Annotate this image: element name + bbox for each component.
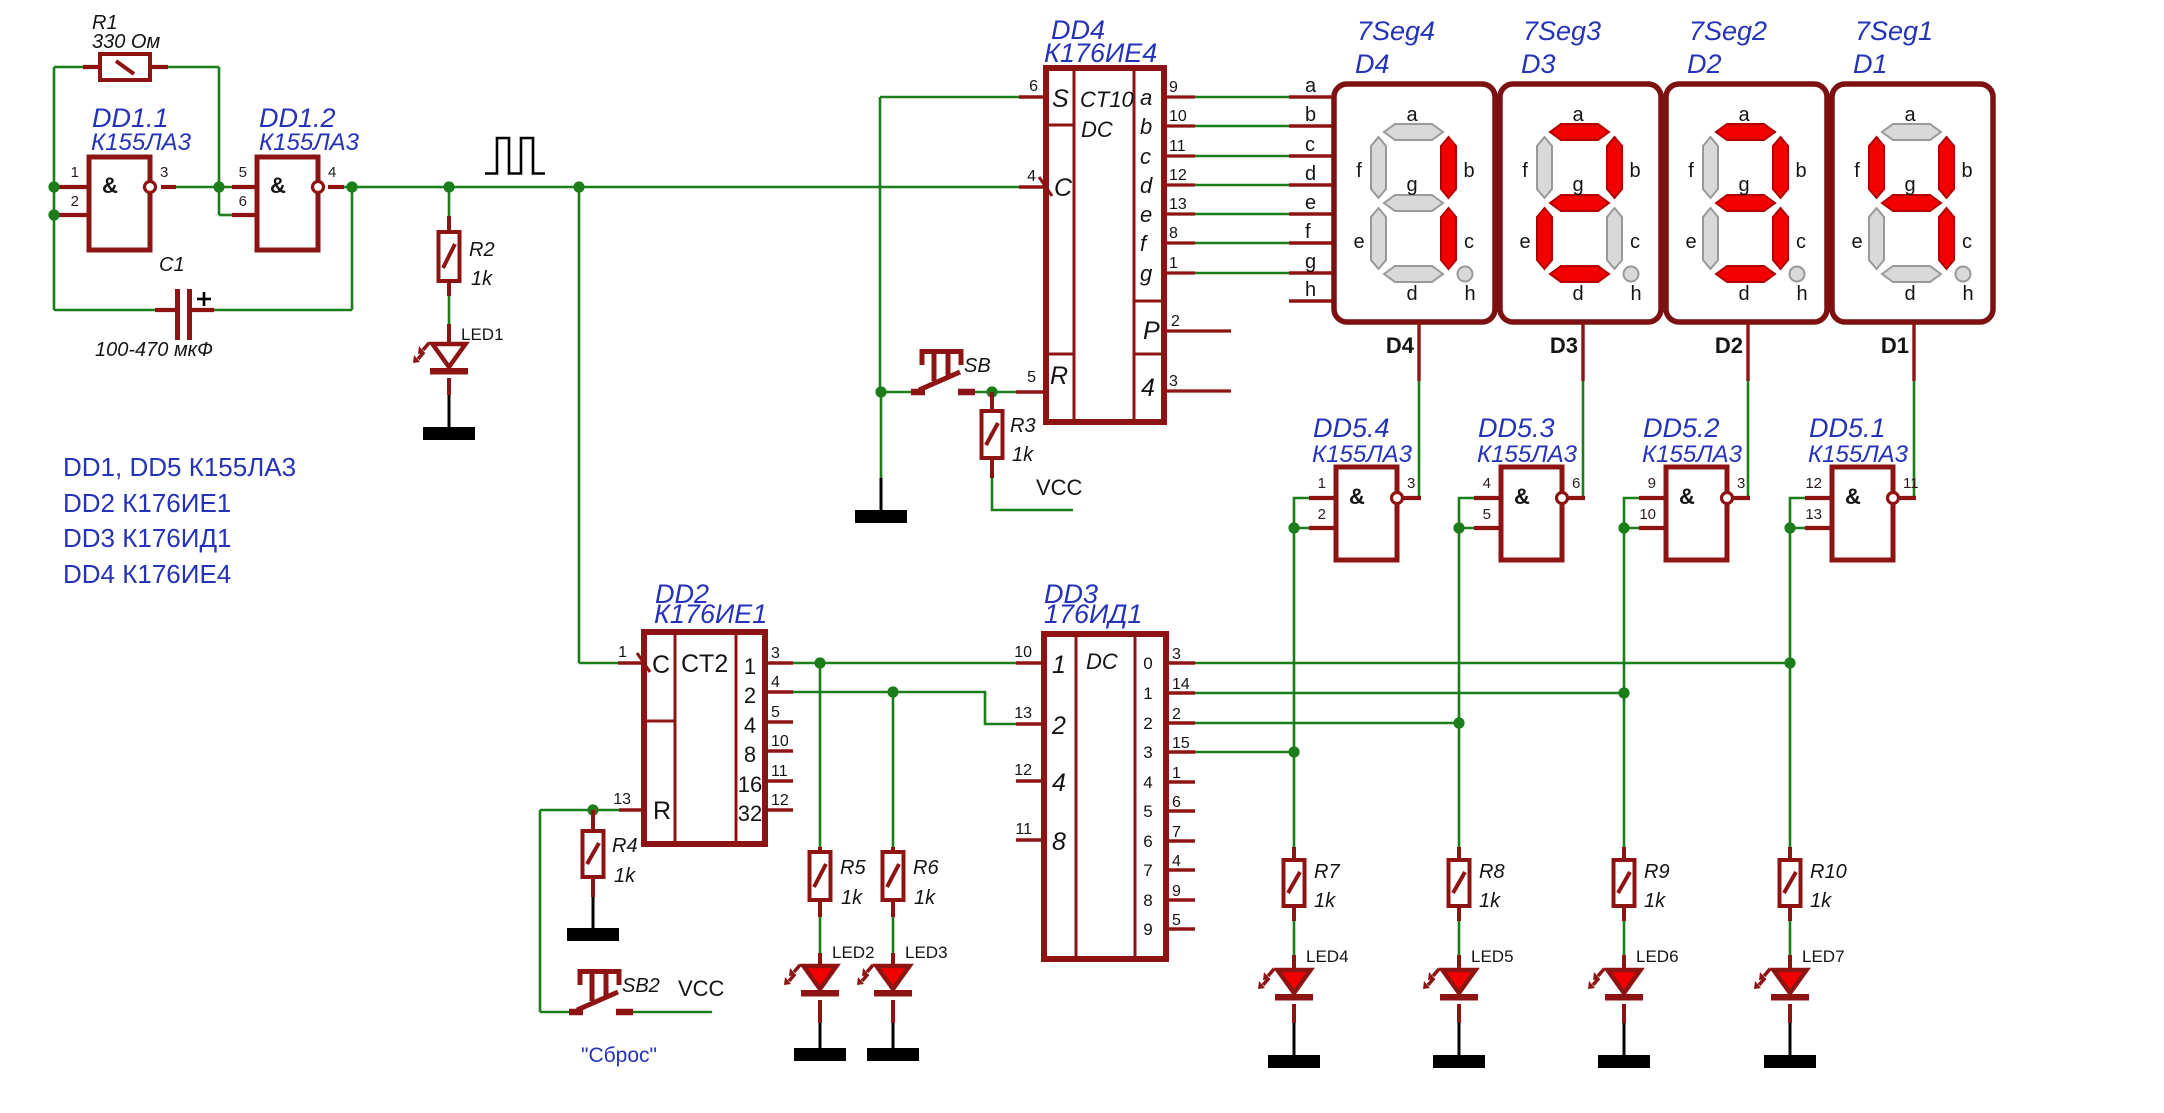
NAND gate DD5.1 bbox=[1832, 467, 1899, 560]
resistor R6 bbox=[883, 852, 904, 900]
wire bbox=[1639, 526, 1666, 530]
clock waveform symbol bbox=[485, 138, 545, 174]
svg-text:CT10: CT10 bbox=[1080, 87, 1135, 112]
wire bbox=[1016, 390, 1046, 394]
node bbox=[48, 209, 59, 220]
wire bbox=[592, 897, 595, 929]
svg-text:D1: D1 bbox=[1853, 49, 1888, 79]
svg-text:0: 0 bbox=[1143, 654, 1152, 673]
svg-text:15: 15 bbox=[1172, 735, 1190, 752]
wire bbox=[1581, 322, 1584, 381]
wire bbox=[447, 281, 451, 296]
wire bbox=[1289, 241, 1334, 244]
wire bbox=[232, 185, 257, 189]
wire bbox=[540, 1011, 570, 1014]
wire bbox=[765, 690, 793, 693]
svg-text:f: f bbox=[1688, 160, 1694, 182]
wire bbox=[880, 96, 1019, 99]
svg-text:f: f bbox=[1854, 160, 1860, 182]
svg-text:D3: D3 bbox=[1550, 333, 1578, 358]
LED LED4 bbox=[1258, 969, 1313, 1001]
wire bbox=[990, 458, 994, 478]
svg-text:f: f bbox=[1522, 160, 1528, 182]
svg-text:h: h bbox=[1796, 283, 1807, 305]
svg-text:h: h bbox=[1464, 283, 1475, 305]
svg-text:12: 12 bbox=[1014, 762, 1032, 779]
svg-text:c: c bbox=[1464, 231, 1474, 253]
wire bbox=[1457, 1004, 1461, 1023]
wire bbox=[1568, 496, 1585, 500]
wire bbox=[1458, 921, 1461, 955]
wire bbox=[54, 66, 83, 69]
svg-text:R7: R7 bbox=[1314, 861, 1340, 883]
svg-text:DD3 К176ИД1: DD3 К176ИД1 bbox=[63, 523, 232, 553]
svg-text:1: 1 bbox=[1318, 475, 1326, 492]
svg-text:D2: D2 bbox=[1715, 333, 1743, 358]
svg-text:4: 4 bbox=[1172, 853, 1181, 870]
LED LED3 bbox=[857, 965, 912, 997]
node bbox=[1453, 522, 1464, 533]
wire bbox=[218, 67, 221, 187]
svg-text:DD1, DD5 К155ЛА3: DD1, DD5 К155ЛА3 bbox=[63, 452, 296, 482]
wire bbox=[891, 1000, 895, 1023]
svg-text:5: 5 bbox=[239, 164, 247, 181]
svg-text:LED3: LED3 bbox=[905, 943, 948, 962]
svg-text:6: 6 bbox=[1143, 832, 1152, 851]
wire bbox=[1292, 1004, 1296, 1023]
wire bbox=[1912, 322, 1915, 381]
wire bbox=[880, 392, 883, 478]
wire bbox=[1805, 496, 1832, 500]
wire bbox=[1622, 906, 1626, 921]
svg-text:8: 8 bbox=[1052, 828, 1066, 856]
wire bbox=[219, 214, 232, 217]
push button SB2 bbox=[569, 972, 633, 1013]
wire bbox=[591, 810, 595, 832]
svg-text:К176ИЕ4: К176ИЕ4 bbox=[1044, 38, 1157, 68]
wire bbox=[1582, 381, 1585, 498]
svg-text:9: 9 bbox=[1648, 475, 1656, 492]
ground under LED5 bbox=[1433, 1055, 1485, 1068]
7-segment display D1 bbox=[1832, 84, 1993, 322]
wire bbox=[1289, 124, 1334, 127]
svg-text:e: e bbox=[1140, 202, 1152, 227]
svg-text:5: 5 bbox=[771, 704, 780, 721]
svg-text:5: 5 bbox=[1143, 802, 1152, 821]
wire bbox=[1457, 955, 1461, 971]
wire bbox=[448, 296, 451, 324]
svg-text:11: 11 bbox=[771, 763, 788, 780]
wire bbox=[1166, 927, 1195, 930]
wire bbox=[1639, 496, 1666, 500]
svg-text:13: 13 bbox=[613, 791, 631, 808]
svg-text:7: 7 bbox=[1172, 824, 1181, 841]
svg-text:1: 1 bbox=[1172, 765, 1181, 782]
wire bbox=[1789, 921, 1792, 955]
wire bbox=[1289, 95, 1334, 98]
svg-text:g: g bbox=[1305, 251, 1316, 273]
wire bbox=[793, 662, 1016, 665]
wire bbox=[1622, 1004, 1626, 1023]
svg-text:&: & bbox=[1349, 484, 1365, 509]
svg-text:c: c bbox=[1962, 231, 1972, 253]
svg-text:e: e bbox=[1519, 231, 1530, 253]
wire bbox=[1403, 496, 1421, 500]
svg-text:3: 3 bbox=[771, 645, 780, 662]
svg-text:R10: R10 bbox=[1810, 861, 1847, 883]
wire bbox=[1474, 496, 1501, 500]
ground under LED4 bbox=[1268, 1055, 1320, 1068]
wire bbox=[1166, 809, 1195, 812]
ground under LED1 bbox=[423, 427, 475, 440]
svg-text:12: 12 bbox=[1169, 167, 1187, 184]
svg-text:К155ЛА3: К155ЛА3 bbox=[91, 129, 192, 156]
svg-text:2: 2 bbox=[71, 193, 79, 210]
ground under LED7 bbox=[1764, 1055, 1816, 1068]
svg-text:8: 8 bbox=[1143, 891, 1152, 910]
svg-text:1k: 1k bbox=[471, 268, 493, 290]
svg-text:VCC: VCC bbox=[1036, 475, 1083, 500]
svg-text:a: a bbox=[1904, 104, 1916, 126]
svg-text:11: 11 bbox=[1169, 138, 1186, 155]
wire bbox=[765, 661, 793, 664]
svg-text:К155ЛА3: К155ЛА3 bbox=[1642, 441, 1743, 468]
wire bbox=[1292, 847, 1296, 861]
svg-text:10: 10 bbox=[1014, 644, 1032, 661]
wire bbox=[1289, 154, 1334, 157]
wire bbox=[891, 847, 895, 853]
wire bbox=[1164, 154, 1195, 157]
wire bbox=[1195, 155, 1289, 158]
svg-text:a: a bbox=[1305, 75, 1317, 97]
ground under LED2 bbox=[794, 1048, 846, 1061]
wire bbox=[328, 185, 344, 189]
svg-text:DD4 К176ИЕ4: DD4 К176ИЕ4 bbox=[63, 559, 231, 589]
wire bbox=[1289, 212, 1334, 215]
wire inputs DD5.3 bbox=[1459, 498, 1474, 528]
svg-text:LED7: LED7 bbox=[1802, 947, 1845, 966]
svg-text:c: c bbox=[1796, 231, 1806, 253]
wire bbox=[1164, 124, 1195, 127]
svg-text:13: 13 bbox=[1169, 196, 1187, 213]
svg-text:К155ЛА3: К155ЛА3 bbox=[259, 129, 360, 156]
svg-text:К176ИЕ1: К176ИЕ1 bbox=[654, 599, 767, 629]
wire bbox=[765, 808, 793, 811]
svg-text:6: 6 bbox=[239, 193, 247, 210]
svg-text:R2: R2 bbox=[469, 239, 495, 261]
resistor R1 330 Om bbox=[100, 54, 150, 80]
wire bbox=[1292, 906, 1296, 921]
wire bbox=[1622, 955, 1626, 971]
svg-text:&: & bbox=[1514, 484, 1530, 509]
svg-text:S: S bbox=[1052, 85, 1069, 113]
svg-text:4: 4 bbox=[744, 713, 756, 738]
svg-text:R9: R9 bbox=[1644, 861, 1670, 883]
LED LED5 bbox=[1423, 969, 1478, 1001]
wire bbox=[1805, 526, 1832, 530]
svg-text:R8: R8 bbox=[1479, 861, 1505, 883]
ground under LED6 bbox=[1598, 1055, 1650, 1068]
ground under R4 bbox=[567, 928, 619, 941]
svg-text:2: 2 bbox=[1172, 706, 1181, 723]
svg-text:2: 2 bbox=[1171, 313, 1180, 330]
wire bbox=[1166, 691, 1195, 694]
node bbox=[587, 804, 598, 815]
svg-text:1: 1 bbox=[618, 644, 627, 661]
wire bbox=[1164, 271, 1195, 274]
node bbox=[573, 181, 584, 192]
svg-text:12: 12 bbox=[771, 792, 789, 809]
wire bbox=[1164, 95, 1195, 98]
svg-text:&: & bbox=[270, 173, 286, 198]
svg-text:C1: C1 bbox=[159, 254, 185, 276]
ground under SB bbox=[855, 510, 907, 523]
NAND gate DD5.4 bbox=[1336, 467, 1403, 560]
svg-text:LED4: LED4 bbox=[1306, 947, 1349, 966]
wire bbox=[818, 900, 822, 917]
wire bbox=[1309, 496, 1336, 500]
svg-text:3: 3 bbox=[1169, 373, 1178, 390]
node bbox=[1618, 687, 1629, 698]
wire bbox=[1457, 906, 1461, 921]
svg-text:2: 2 bbox=[744, 683, 756, 708]
svg-text:a: a bbox=[1140, 85, 1152, 110]
IC body DD4 bbox=[1046, 68, 1164, 422]
svg-text:C: C bbox=[652, 651, 670, 679]
svg-text:1k: 1k bbox=[614, 865, 636, 887]
svg-text:1k: 1k bbox=[1012, 444, 1034, 466]
svg-text:5: 5 bbox=[1172, 912, 1181, 929]
svg-text:R6: R6 bbox=[913, 857, 939, 879]
wire bbox=[1164, 183, 1195, 186]
wire bbox=[57, 213, 89, 217]
wire bbox=[1195, 662, 1790, 665]
svg-text:D2: D2 bbox=[1687, 49, 1722, 79]
wire bbox=[1166, 661, 1195, 664]
svg-text:LED6: LED6 bbox=[1636, 947, 1679, 966]
svg-text:4: 4 bbox=[1027, 168, 1036, 185]
wire bbox=[1195, 213, 1289, 216]
svg-text:11: 11 bbox=[1903, 475, 1919, 492]
resistor R8 bbox=[1449, 860, 1470, 906]
wire bbox=[1166, 868, 1195, 871]
svg-text:b: b bbox=[1629, 160, 1640, 182]
resistor R5 bbox=[810, 852, 831, 900]
wire bbox=[447, 378, 451, 395]
svg-text:DD5.2: DD5.2 bbox=[1643, 413, 1720, 443]
wire bbox=[1019, 95, 1046, 99]
wire bbox=[1166, 750, 1195, 753]
svg-text:g: g bbox=[1738, 174, 1749, 196]
7-segment display D3 bbox=[1500, 84, 1661, 322]
wire bbox=[633, 1011, 712, 1014]
svg-text:9: 9 bbox=[1169, 79, 1178, 96]
capacitor C1 bbox=[155, 289, 214, 340]
wire bbox=[881, 391, 912, 394]
svg-text:1k: 1k bbox=[1314, 890, 1336, 912]
svg-text:1k: 1k bbox=[914, 887, 936, 909]
svg-text:1: 1 bbox=[1169, 255, 1178, 272]
wire bbox=[1195, 722, 1459, 725]
wire bbox=[83, 65, 100, 69]
wire bbox=[892, 692, 895, 847]
svg-text:1: 1 bbox=[71, 164, 79, 181]
resistor R4 bbox=[583, 831, 604, 877]
svg-text:330 Ом: 330 Ом bbox=[92, 31, 160, 53]
svg-text:LED5: LED5 bbox=[1471, 947, 1514, 966]
wire bbox=[448, 187, 451, 216]
svg-text:R: R bbox=[653, 797, 671, 825]
NAND gate DD1.2 bbox=[257, 157, 324, 250]
svg-text:5: 5 bbox=[1027, 369, 1036, 386]
wire bbox=[1289, 271, 1334, 274]
svg-text:1k: 1k bbox=[1810, 890, 1832, 912]
svg-text:DC: DC bbox=[1081, 117, 1113, 142]
wire bbox=[819, 663, 822, 847]
wire bbox=[1747, 381, 1750, 498]
svg-text:6: 6 bbox=[1029, 78, 1038, 95]
wire bbox=[1458, 528, 1461, 847]
LED LED7 bbox=[1754, 969, 1809, 1001]
svg-text:g: g bbox=[1904, 174, 1915, 196]
svg-text:b: b bbox=[1961, 160, 1972, 182]
svg-text:d: d bbox=[1140, 173, 1153, 198]
svg-text:b: b bbox=[1463, 160, 1474, 182]
svg-text:8: 8 bbox=[744, 742, 756, 767]
svg-text:D3: D3 bbox=[1521, 49, 1556, 79]
wire bbox=[1474, 526, 1501, 530]
node bbox=[48, 181, 59, 192]
svg-text:7: 7 bbox=[1143, 861, 1152, 880]
svg-text:4: 4 bbox=[1483, 475, 1491, 492]
wire bbox=[975, 391, 1016, 394]
svg-text:h: h bbox=[1630, 283, 1641, 305]
wire bbox=[1195, 96, 1289, 99]
wire bbox=[990, 392, 994, 412]
svg-text:1k: 1k bbox=[1479, 890, 1501, 912]
wire bbox=[1164, 212, 1195, 215]
node bbox=[213, 181, 224, 192]
wire bbox=[351, 187, 354, 310]
svg-text:LED2: LED2 bbox=[832, 943, 875, 962]
svg-text:b: b bbox=[1305, 104, 1316, 126]
wire bbox=[1195, 692, 1624, 695]
wire bbox=[1733, 496, 1750, 500]
ground under LED3 bbox=[867, 1048, 919, 1061]
svg-text:7Seg4: 7Seg4 bbox=[1357, 16, 1435, 46]
svg-text:e: e bbox=[1353, 231, 1364, 253]
svg-text:h: h bbox=[1962, 283, 1973, 305]
wire bbox=[1195, 125, 1289, 128]
LED LED1 bbox=[413, 343, 468, 375]
svg-text:d: d bbox=[1406, 283, 1417, 305]
svg-text:d: d bbox=[1572, 283, 1583, 305]
svg-text:9: 9 bbox=[1143, 920, 1152, 939]
IC DD4 internal dividers bbox=[1046, 125, 1164, 354]
wire bbox=[1746, 322, 1749, 381]
wire bbox=[1016, 722, 1044, 725]
svg-text:13: 13 bbox=[1805, 506, 1822, 523]
svg-text:3: 3 bbox=[1737, 475, 1745, 492]
wire bbox=[1292, 955, 1296, 971]
node bbox=[443, 181, 454, 192]
svg-text:R: R bbox=[1050, 362, 1068, 390]
svg-text:R5: R5 bbox=[840, 857, 866, 879]
node bbox=[986, 386, 997, 397]
wire bbox=[540, 809, 619, 812]
svg-text:&: & bbox=[1679, 484, 1695, 509]
NAND gate DD1.1 bbox=[89, 157, 156, 250]
svg-text:DC: DC bbox=[1086, 649, 1118, 674]
clock chevron DD2 pin C bbox=[637, 653, 650, 672]
IC body DD3 bbox=[1044, 634, 1166, 959]
svg-text:&: & bbox=[1845, 484, 1861, 509]
wire bbox=[1417, 322, 1420, 381]
node bbox=[814, 657, 825, 668]
svg-text:К155ЛА3: К155ЛА3 bbox=[1312, 441, 1413, 468]
svg-text:1: 1 bbox=[1052, 651, 1066, 679]
svg-text:d: d bbox=[1738, 283, 1749, 305]
svg-text:2: 2 bbox=[1051, 712, 1066, 740]
wire bbox=[53, 67, 56, 310]
svg-text:6: 6 bbox=[1172, 794, 1181, 811]
svg-text:2: 2 bbox=[1143, 714, 1152, 733]
LED LED6 bbox=[1588, 969, 1643, 1001]
svg-text:11: 11 bbox=[1015, 821, 1032, 838]
svg-text:32: 32 bbox=[738, 801, 762, 826]
wire bbox=[1289, 299, 1334, 302]
svg-text:a: a bbox=[1572, 104, 1584, 126]
wire inputs DD5.1 bbox=[1790, 498, 1805, 528]
svg-text:10: 10 bbox=[1639, 506, 1656, 523]
svg-text:e: e bbox=[1685, 231, 1696, 253]
svg-text:7Seg1: 7Seg1 bbox=[1855, 16, 1933, 46]
wire bbox=[232, 213, 257, 217]
wire bbox=[1293, 1023, 1296, 1056]
push button SB bbox=[911, 352, 975, 393]
wire bbox=[765, 779, 793, 782]
wire bbox=[880, 478, 883, 511]
wire bbox=[1289, 183, 1334, 186]
svg-text:3: 3 bbox=[1172, 646, 1181, 663]
resistor R3 bbox=[982, 411, 1003, 458]
svg-text:1: 1 bbox=[744, 654, 756, 679]
svg-text:P: P bbox=[1143, 317, 1160, 345]
wire bbox=[1019, 185, 1046, 189]
svg-text:D4: D4 bbox=[1386, 333, 1415, 358]
svg-text:5: 5 bbox=[1483, 506, 1491, 523]
wire inputs DD5.2 bbox=[1624, 498, 1639, 528]
resistor R7 bbox=[1284, 860, 1305, 906]
IC DD2 internal divider bbox=[644, 720, 675, 723]
svg-text:h: h bbox=[1305, 279, 1316, 301]
svg-text:4: 4 bbox=[1052, 769, 1066, 797]
svg-text:g: g bbox=[1406, 174, 1417, 196]
resistor R9 bbox=[1614, 860, 1635, 906]
wire bbox=[1622, 847, 1626, 861]
wire bbox=[447, 216, 451, 233]
svg-text:b: b bbox=[1795, 160, 1806, 182]
wire bbox=[1166, 780, 1195, 783]
wire bbox=[176, 186, 232, 189]
svg-text:1: 1 bbox=[1143, 684, 1152, 703]
wire bbox=[1016, 661, 1044, 664]
svg-text:4: 4 bbox=[328, 164, 336, 181]
svg-text:9: 9 bbox=[1172, 883, 1181, 900]
wire bbox=[618, 661, 644, 665]
wire bbox=[161, 185, 176, 189]
wire bbox=[344, 186, 1019, 189]
